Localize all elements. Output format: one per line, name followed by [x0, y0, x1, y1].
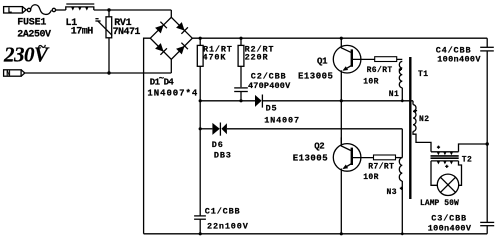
svg-text:L: L: [8, 8, 12, 16]
winding N3: [399, 158, 402, 181]
svg-text:N2: N2: [419, 115, 429, 124]
capacitor C1/CBB 22n100V: [194, 216, 206, 234]
svg-text:R7/RT: R7/RT: [368, 162, 394, 171]
svg-text:22n100V: 22n100V: [207, 221, 249, 231]
svg-text:10R: 10R: [363, 173, 379, 182]
wire DC minus: bridge left corner to bottom rail: [144, 38, 151, 234]
terminal N: [4, 70, 25, 76]
fuse FUSE1: [27, 5, 66, 15]
wire right rail: [486, 144, 488, 222]
node: N / RV1 junction: [107, 71, 110, 74]
inductor L1: [66, 4, 95, 10]
bridge rectifier D1~D4: [150, 17, 192, 59]
svg-text:LAMP 50W: LAMP 50W: [420, 199, 459, 208]
svg-text:1N4007: 1N4007: [264, 115, 300, 125]
wire N2 to T2: [413, 131, 431, 151]
svg-text:100n400V: 100n400V: [437, 55, 481, 65]
node: top wire / RV1 junction: [107, 8, 110, 11]
svg-text:7N471: 7N471: [113, 27, 141, 38]
diode D3 (bottom-left): [155, 43, 164, 52]
diode D4 (bottom-right): [176, 46, 185, 55]
svg-text:C3/CBB: C3/CBB: [431, 213, 467, 223]
resistor R1/RT 470K: [197, 38, 203, 215]
svg-text:Q2: Q2: [314, 141, 324, 151]
transformer T2 primary: [431, 151, 459, 153]
wire D6 line: [200, 128, 212, 130]
wire DC plus rail: [192, 37, 487, 39]
capacitor C4/CBB 100n400V: [480, 38, 494, 144]
diode D5 1N4007: [255, 95, 262, 107]
svg-text:C1/CBB: C1/CBB: [205, 207, 241, 217]
wire top: [94, 9, 172, 11]
svg-text:FUSE1: FUSE1: [17, 17, 46, 28]
svg-text:220R: 220R: [245, 52, 269, 62]
svg-text:470K: 470K: [203, 52, 227, 62]
wire secondary to lamp: [431, 161, 437, 185]
svg-text:T1: T1: [418, 70, 428, 79]
capacitor C3/CBB 100n400V: [480, 222, 494, 233]
wire bottom rail: [144, 233, 488, 235]
svg-text:100n400V: 100n400V: [428, 223, 472, 233]
varistor RV1: [95, 10, 112, 73]
svg-text:D4: D4: [164, 78, 175, 88]
transistor Q1 E13005: [333, 38, 374, 101]
svg-text:Q1: Q1: [317, 56, 328, 66]
transformer T2 secondary: [431, 160, 459, 162]
wire mid rail: [200, 100, 255, 102]
transistor Q2 E13005: [333, 101, 373, 234]
wire N: [25, 72, 172, 74]
svg-text:D6: D6: [212, 140, 224, 150]
node: C2 / mid rail: [239, 99, 242, 102]
polarity mark T2 primary: [437, 146, 440, 149]
svg-text:R6/RT: R6/RT: [367, 66, 393, 75]
svg-text:N1: N1: [389, 90, 399, 99]
transformer T1 core: [409, 57, 411, 199]
diode D1 (top-left): [155, 25, 164, 34]
svg-text:E13005: E13005: [293, 153, 328, 163]
svg-text:D5: D5: [266, 103, 278, 113]
svg-text:17mH: 17mH: [71, 26, 94, 37]
svg-text:T2: T2: [462, 155, 472, 164]
svg-text:DB3: DB3: [214, 150, 232, 160]
transformer T2 core: [431, 156, 459, 159]
resistor R6/RT 10R: [375, 57, 397, 62]
winding N2: [413, 105, 416, 132]
capacitor C2/CBB 470P400V: [234, 88, 248, 101]
svg-text:1N4007*4: 1N4007*4: [147, 88, 198, 98]
winding N1: [399, 61, 402, 87]
svg-text:~: ~: [38, 40, 46, 56]
svg-text:C2/CBB: C2/CBB: [251, 71, 287, 81]
terminal L: [4, 7, 27, 13]
polarity mark N2: [414, 109, 417, 112]
svg-text:N: N: [6, 71, 10, 79]
wire D6 to R7/N3: [401, 129, 403, 158]
svg-text:2A250V: 2A250V: [17, 29, 51, 40]
polarity mark N1: [399, 68, 402, 71]
svg-text:N3: N3: [387, 188, 397, 197]
lamp LAMP 50W: [437, 174, 458, 195]
svg-text:E13005: E13005: [298, 71, 333, 81]
diode D2 (top-right): [176, 22, 185, 31]
svg-text:470P400V: 470P400V: [248, 81, 291, 91]
diac D6 DB3: [212, 123, 219, 135]
svg-text:10R: 10R: [363, 77, 379, 86]
polarity mark N3: [400, 187, 403, 190]
polarity mark T2 secondary: [445, 165, 448, 168]
resistor R2/RT 220R: [238, 38, 244, 87]
resistor R7/RT 10R: [374, 155, 396, 160]
